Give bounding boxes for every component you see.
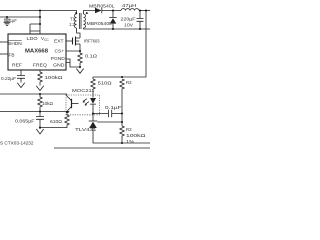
svg-text:GND: GND (53, 63, 65, 68)
svg-text:R3: R3 (126, 127, 132, 132)
svg-text:S CTX03-14232: S CTX03-14232 (0, 141, 34, 146)
capacitor 0.1uF (93, 110, 122, 117)
wire VIN rail top (0, 11, 77, 15)
wire TLV431 anode rail (93, 128, 150, 143)
svg-text:0.065µF: 0.065µF (15, 119, 35, 124)
wire VCC vertical to IC (39, 11, 41, 35)
wire VCC rail (0, 16, 40, 18)
phototransistor bar (71, 99, 73, 108)
inductor L1 47uH (121, 9, 139, 11)
resistor 10k (38, 94, 42, 112)
svg-text:100kΩ: 100kΩ (126, 133, 147, 138)
resistor 510ohm (91, 79, 95, 98)
resistor 610ohm (40, 112, 69, 128)
capacitor REF 0.22uF (17, 70, 25, 83)
svg-text:MBR0540L: MBR0540L (87, 21, 113, 26)
svg-text:CS+: CS+ (55, 49, 65, 54)
capacitor C2 220uF (137, 11, 144, 30)
resistor R3 (120, 126, 124, 143)
shunt regulator TLV431 (89, 120, 98, 122)
svg-text:10kΩ: 10kΩ (42, 101, 54, 106)
svg-text:REF: REF (12, 62, 22, 67)
wire D1 cathode (102, 10, 121, 12)
svg-text:T1: T1 (70, 17, 76, 22)
wire SHDN (0, 41, 8, 43)
svg-text:610Ω: 610Ω (50, 119, 63, 124)
svg-text:MBR0540L: MBR0540L (89, 3, 115, 8)
svg-text:1:2: 1:2 (69, 22, 76, 27)
LED in opto (90, 98, 96, 104)
wire output top (139, 10, 150, 12)
svg-text:LDO: LDO (27, 36, 39, 41)
transistor Q1 IRF7603 (72, 38, 74, 45)
transformer T1 core (80, 13, 81, 29)
svg-text:SHDN: SHDN (8, 41, 21, 46)
svg-text:R2: R2 (126, 80, 132, 85)
ground below FREQ resistor (36, 86, 43, 91)
wire EXT (66, 40, 73, 42)
ground below sense (76, 69, 83, 74)
opto light arrows (83, 99, 89, 105)
wire drain to primary (77, 28, 81, 38)
svg-text:10V: 10V (124, 22, 133, 27)
svg-text:220µF: 220µF (121, 16, 136, 21)
phototransistor base stub (72, 103, 79, 105)
wire secondary top (84, 11, 96, 15)
svg-text:IRF7603: IRF7603 (84, 38, 100, 43)
transformer T1 primary (75, 14, 77, 28)
svg-text:0.22µF: 0.22µF (1, 76, 16, 81)
op-amp U1 MAX668 box (8, 34, 66, 70)
diode D1 MBR0540L (95, 8, 102, 14)
svg-text:MOC211: MOC211 (72, 88, 95, 93)
svg-text:TLV431: TLV431 (75, 127, 97, 132)
wire LDO stub (30, 24, 40, 34)
ground below 1uF (4, 22, 11, 25)
diode D2 MBR0540L (109, 11, 116, 30)
wire CS+ (66, 44, 80, 53)
svg-text:0.1Ω: 0.1Ω (85, 54, 98, 59)
wire opto collector (0, 94, 72, 101)
wire TLV431 ref (97, 121, 122, 123)
resistor R sense 0.1ohm (78, 53, 82, 63)
wire sense to ground (79, 63, 81, 68)
opto emitter arrowhead (67, 111, 70, 113)
wire PGND (66, 59, 80, 67)
svg-text:MAX668: MAX668 (25, 49, 48, 55)
svg-text:510Ω: 510Ω (98, 80, 113, 85)
resistor R2 (120, 79, 124, 126)
ground below 0.065uF (36, 128, 43, 135)
svg-text:FREQ: FREQ (33, 62, 48, 67)
capacitor 1uF (4, 17, 10, 22)
wire opto emitter (0, 107, 72, 113)
svg-text:47µH: 47µH (122, 3, 137, 8)
svg-text:1µF: 1µF (10, 18, 17, 23)
svg-text:PGND: PGND (51, 56, 65, 61)
wire output feedback rail (93, 11, 146, 80)
svg-text:EXT: EXT (54, 38, 64, 43)
wire secondary return rail (84, 28, 151, 29)
svg-text:0.1µF: 0.1µF (105, 105, 122, 110)
junction dots (6, 9, 147, 144)
optocoupler U2 MOC211 dashed box (66, 95, 100, 115)
resistor FREQ 100k (38, 70, 42, 86)
wire bottom rail (54, 147, 150, 149)
capacitor 0.065uF (36, 112, 44, 128)
transformer T1 secondary (84, 14, 86, 28)
svg-text:VCC: VCC (41, 36, 49, 42)
svg-text:FB: FB (9, 53, 15, 58)
wire FB (0, 53, 8, 55)
svg-text:1%: 1% (126, 139, 134, 144)
ground below REF cap (17, 83, 24, 88)
svg-text:100kΩ: 100kΩ (45, 75, 64, 80)
